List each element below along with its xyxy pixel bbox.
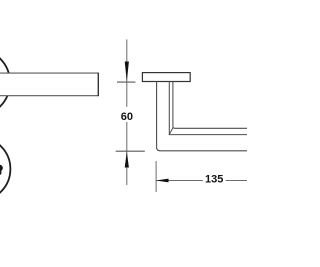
dimension 135: line left segment — [156, 180, 203, 182]
dimension 60: vertical line upper part — [126, 39, 128, 106]
lever bar bottom edge — [0, 95, 98, 97]
keyhole (clipped at left edge) — [0, 165, 3, 175]
neck left edge and grip bottom edge (side view outline) — [157, 82, 247, 151]
svg-text:60: 60 — [121, 111, 133, 123]
dimension 60: upper tick — [117, 81, 135, 83]
dimension 60: up arrowhead — [125, 152, 129, 168]
lever bar right edge — [97, 73, 99, 97]
dimension 135: extension line — [155, 161, 157, 192]
neck inner edge and grip front-face line (side view) — [169, 82, 247, 135]
svg-text:135: 135 — [205, 174, 223, 186]
dimension 60: lower tick — [116, 150, 145, 152]
dimension 135: left arrowhead — [156, 179, 169, 183]
escutcheon circle (front view, clipped at left edge) — [0, 137, 10, 201]
lever bar top edge — [0, 72, 98, 74]
rosette circle (front view, clipped at left edge) — [0, 49, 10, 117]
dimension 60: vertical line lower part — [126, 122, 128, 185]
dimension 60: down arrowhead — [125, 62, 129, 82]
lever bar fill (front view, covers rosette) — [0, 73, 98, 96]
rosette slab (side view) — [142, 73, 190, 82]
dimension 135: line right segment — [226, 180, 247, 182]
corner miter line (side view bend) — [169, 127, 173, 134]
neck outer edge and grip top edge (side view) — [173, 82, 247, 129]
